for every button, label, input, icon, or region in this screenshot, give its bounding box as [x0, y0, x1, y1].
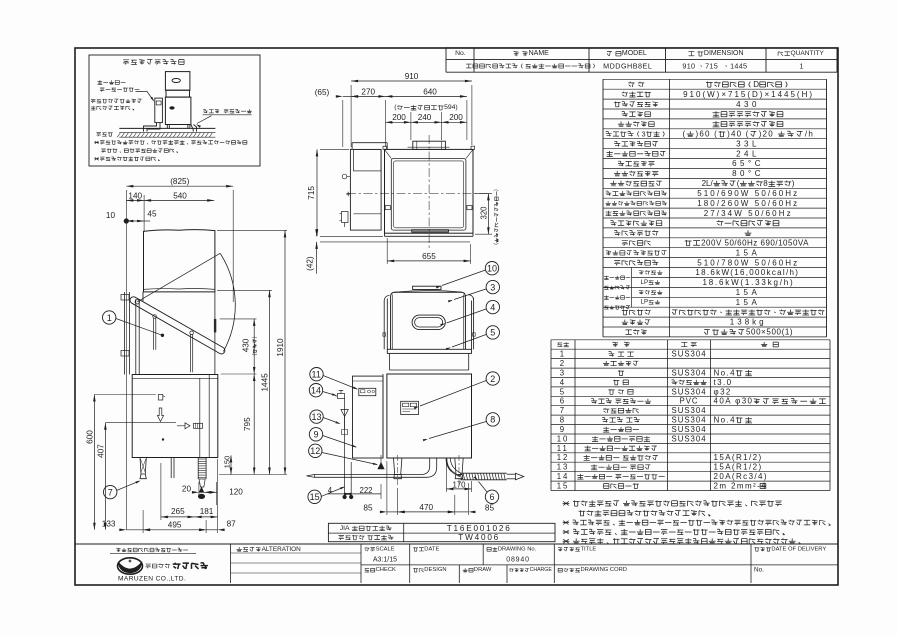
svg-text:CHARGE: CHARGE	[530, 567, 553, 573]
svg-text:20A(Rc3/4): 20A(Rc3/4)	[714, 472, 768, 481]
svg-text:18.6kW(1.33kg/h): 18.6kW(1.33kg/h)	[703, 278, 795, 287]
svg-text:430: 430	[242, 338, 251, 352]
top name/model table	[445, 48, 447, 72]
svg-text:138kg: 138kg	[730, 318, 767, 327]
svg-text:A3:1/15: A3:1/15	[373, 556, 397, 563]
sheet border frame	[75, 48, 838, 585]
svg-text:1445: 1445	[730, 62, 747, 71]
side view: front frame edge below door box	[214, 292, 216, 374]
svg-text:)60 (: )60 (	[696, 130, 718, 139]
side view: hinge column	[135, 299, 137, 375]
dimension (42)	[316, 232, 318, 237]
svg-text:(: (	[737, 179, 740, 188]
svg-text:45: 45	[147, 209, 157, 218]
svg-text:2L/: 2L/	[702, 179, 714, 188]
svg-text:500×500(1): 500×500(1)	[746, 328, 793, 337]
svg-text:15A(R1/2): 15A(R1/2)	[714, 463, 763, 472]
overflow pipe	[155, 98, 163, 123]
svg-text:): )	[494, 189, 500, 191]
svg-text:3: 3	[560, 369, 566, 378]
svg-text:MARUZEN CO.,LTD.: MARUZEN CO.,LTD.	[118, 576, 186, 583]
parts list table	[551, 339, 830, 341]
dimension 795	[253, 374, 255, 475]
svg-text:13: 13	[557, 463, 570, 472]
svg-text:(42): (42)	[305, 256, 314, 271]
svg-text:5: 5	[490, 328, 495, 338]
dimension 407	[105, 422, 176, 424]
svg-text:87: 87	[227, 520, 237, 529]
hose corrugation	[460, 473, 461, 480]
plan view: corner ears	[383, 146, 387, 149]
svg-text:NAME: NAME	[529, 50, 550, 57]
front view: booster pipes	[344, 398, 346, 497]
title block	[75, 543, 838, 545]
plan view: bottom bar	[412, 230, 449, 233]
front view: hood top cap	[413, 286, 441, 289]
drain ditch label	[96, 133, 101, 137]
svg-text:20: 20	[182, 484, 192, 493]
svg-text:24L: 24L	[736, 149, 760, 158]
svg-text:(65): (65)	[315, 88, 330, 97]
plan view: main body outline	[385, 149, 474, 233]
svg-text:15A: 15A	[736, 288, 761, 297]
svg-text:8: 8	[560, 416, 566, 425]
svg-text:JIA: JIA	[340, 525, 350, 532]
svg-text:No.4: No.4	[714, 416, 737, 425]
svg-text:200: 200	[449, 113, 463, 122]
svg-text:715: 715	[307, 186, 316, 200]
tank drain pipe	[191, 125, 197, 132]
front view: funnel symbol	[341, 410, 348, 417]
svg-text:(825): (825)	[170, 177, 189, 186]
floor with hatching	[119, 127, 215, 129]
svg-text:470: 470	[419, 503, 433, 512]
svg-text:10: 10	[106, 211, 116, 220]
svg-text:910(W)×715(D)×1445(H): 910(W)×715(D)×1445(H)	[683, 90, 814, 99]
svg-text:SUS304: SUS304	[672, 387, 707, 396]
svg-text:265: 265	[171, 507, 185, 516]
dimension 150	[230, 455, 232, 474]
svg-text:2: 2	[560, 359, 566, 368]
front view: dimension 85 470 85	[386, 461, 388, 515]
booster overflow label	[98, 80, 103, 84]
front view: gas cock symbol	[338, 394, 345, 399]
side view: hood mid lines	[142, 292, 144, 301]
dimension 910	[350, 85, 352, 147]
svg-text:10: 10	[557, 434, 570, 443]
mini dishwasher pictogram	[165, 72, 190, 91]
svg-text:15A: 15A	[736, 298, 761, 307]
plan view: centerlines	[428, 135, 430, 248]
svg-text:DRAWING No.: DRAWING No.	[498, 546, 537, 552]
svg-text:640: 640	[423, 87, 437, 96]
svg-text:DATE: DATE	[424, 546, 439, 552]
svg-text:430: 430	[736, 100, 760, 109]
side view: legs	[140, 458, 146, 479]
svg-text:85: 85	[485, 504, 495, 513]
svg-text:DESIGN: DESIGN	[424, 567, 446, 573]
svg-text:No.: No.	[455, 50, 466, 57]
front view: legs	[394, 458, 402, 475]
svg-text:LP: LP	[641, 299, 649, 306]
svg-text:1445: 1445	[260, 373, 269, 392]
svg-text:180/260W 50/60Hz: 180/260W 50/60Hz	[697, 199, 799, 208]
svg-text:): )	[252, 336, 258, 338]
front view: gas connection triangle	[378, 463, 384, 469]
dimension 600	[94, 394, 156, 396]
svg-text:)40 (: )40 (	[727, 130, 749, 139]
svg-text:540: 540	[173, 191, 187, 200]
svg-text:3: 3	[642, 130, 646, 139]
svg-text:170: 170	[453, 481, 467, 490]
svg-text:715: 715	[705, 62, 718, 71]
specification table	[603, 78, 827, 80]
svg-text:510/690W 50/60Hz: 510/690W 50/60Hz	[697, 189, 799, 198]
svg-text:910: 910	[405, 72, 419, 81]
svg-text:85: 85	[363, 504, 373, 513]
svg-text:120: 120	[229, 488, 243, 497]
pipe guidance label	[91, 99, 96, 103]
svg-text:6: 6	[490, 492, 495, 502]
svg-text:12: 12	[310, 446, 320, 456]
plan view: side tabs	[385, 206, 390, 210]
svg-text:08940: 08940	[506, 556, 529, 563]
side view: door swing fan	[137, 253, 220, 301]
svg-text:SUS304: SUS304	[672, 406, 707, 415]
svg-text:SUS304: SUS304	[672, 350, 707, 359]
front view: door bottom rail band	[387, 349, 471, 353]
svg-text:14: 14	[311, 386, 321, 396]
datum dot	[124, 218, 129, 223]
svg-text:No.4: No.4	[714, 369, 737, 378]
dimension 655	[386, 238, 388, 264]
dimension 430 door opening	[220, 318, 257, 320]
svg-text:600: 600	[86, 430, 95, 444]
svg-text:SUS304: SUS304	[672, 369, 707, 378]
svg-text:CHECK: CHECK	[376, 567, 396, 573]
svg-text:150: 150	[223, 456, 232, 469]
svg-text:8: 8	[490, 415, 495, 425]
svg-text:18.6kW(16,000kcal/h): 18.6kW(16,000kcal/h)	[695, 268, 799, 277]
svg-text:SUS304: SUS304	[672, 434, 707, 443]
dimension 20 / 120	[198, 482, 200, 496]
svg-text:(: (	[494, 243, 500, 245]
svg-text:(: (	[252, 354, 258, 356]
side view: drain hose column	[198, 458, 206, 460]
svg-text:D: D	[753, 80, 759, 89]
installation notes	[563, 501, 570, 505]
front view: control panel	[401, 401, 419, 414]
svg-text:795: 795	[243, 417, 252, 431]
svg-text:181: 181	[200, 507, 214, 516]
svg-text:7: 7	[108, 487, 113, 497]
svg-text:15: 15	[310, 492, 320, 502]
front view: corrugated drain hose	[446, 458, 460, 476]
front view: hood body	[391, 292, 466, 349]
dimension 265 / 181	[160, 463, 162, 520]
side view: drain point marker	[199, 487, 204, 492]
svg-text:510/780W 50/60Hz: 510/780W 50/60Hz	[697, 258, 799, 267]
callout 7	[104, 485, 117, 498]
dimension (65) 270 640	[342, 100, 344, 147]
svg-text:15A: 15A	[736, 248, 761, 257]
side view: hanging handle bars	[153, 315, 157, 319]
svg-text:8: 8	[763, 179, 768, 188]
dimension 140 / 540	[143, 195, 145, 231]
plan view: booster left fittings	[342, 174, 347, 179]
side view: detergent inlet symbol	[158, 395, 163, 401]
svg-text:910: 910	[682, 62, 695, 71]
svg-text:1: 1	[107, 313, 112, 323]
svg-text:2: 2	[490, 374, 495, 384]
front view: booster cabinet	[353, 376, 384, 458]
svg-text:594): 594)	[444, 104, 458, 111]
svg-text:QUANTITY: QUANTITY	[791, 50, 825, 57]
drain hose label	[203, 109, 208, 113]
maruzen company logo block	[116, 548, 120, 552]
svg-text:12: 12	[557, 453, 570, 462]
svg-text:1: 1	[800, 62, 804, 71]
svg-text:80°C: 80°C	[732, 169, 764, 178]
dimension 715	[320, 148, 349, 150]
front view: washer lower body	[387, 374, 472, 458]
svg-text:11: 11	[557, 444, 569, 453]
svg-text:4: 4	[560, 378, 566, 387]
svg-text:φ32: φ32	[714, 387, 732, 396]
svg-text:/h: /h	[805, 130, 814, 139]
svg-text:T16E001026: T16E001026	[447, 524, 512, 533]
dimension 200 240 200	[410, 112, 412, 140]
front view: door handle oval	[412, 315, 445, 330]
svg-text:LP: LP	[641, 279, 649, 286]
dimension 1445	[217, 289, 272, 291]
svg-text:200V 50/60Hz 690/1050VA: 200V 50/60Hz 690/1050VA	[701, 239, 809, 248]
svg-text:7: 7	[560, 406, 566, 415]
plan view: top vent	[413, 141, 446, 149]
svg-text:DRAWING CORD: DRAWING CORD	[581, 567, 627, 573]
svg-text:)20: )20	[759, 130, 774, 139]
svg-text:3: 3	[490, 282, 495, 292]
callouts 10 3 4 5 2 8 right side	[485, 262, 498, 275]
svg-text:1: 1	[560, 350, 566, 359]
svg-text:10: 10	[487, 264, 497, 274]
side view: hood upper box	[144, 230, 215, 292]
dimension 320 rack rail center	[475, 192, 492, 194]
svg-text:655: 655	[422, 252, 436, 261]
svg-text:15: 15	[557, 482, 570, 491]
drain work instruction box	[89, 55, 260, 166]
front view: hood skirt	[389, 353, 391, 370]
front view: guide rails	[383, 301, 385, 350]
svg-text:33L: 33L	[736, 139, 760, 148]
JIA certification number box	[328, 523, 555, 541]
plan view: booster section	[350, 149, 381, 230]
svg-text:): )	[792, 179, 795, 188]
svg-text:495: 495	[168, 521, 182, 530]
svg-text:4: 4	[490, 302, 495, 312]
callouts 11 14 13 9 12 15 left side	[310, 368, 323, 381]
svg-text:MODEL: MODEL	[622, 50, 647, 57]
svg-text:9: 9	[560, 425, 566, 434]
svg-text:240: 240	[418, 113, 432, 122]
svg-text:222: 222	[360, 486, 373, 495]
dimension 10 / 45	[126, 220, 144, 222]
svg-text:DIMENSION: DIMENSION	[704, 50, 744, 57]
svg-text:11: 11	[312, 370, 321, 380]
svg-text:SCALE: SCALE	[376, 546, 395, 552]
svg-text:133: 133	[102, 520, 116, 529]
svg-text:9: 9	[314, 430, 319, 440]
svg-text:14: 14	[557, 472, 570, 481]
svg-text:TW4006: TW4006	[458, 533, 500, 542]
side view: water inlet arrow symbol	[177, 423, 190, 429]
callout 1	[103, 311, 116, 324]
svg-text:SUS304: SUS304	[672, 416, 707, 425]
svg-text:6: 6	[560, 397, 566, 406]
svg-text:DATE OF DELIVERY: DATE OF DELIVERY	[771, 546, 826, 552]
svg-text:SUS304: SUS304	[672, 425, 707, 434]
front view: dimension 4 / 222	[343, 495, 347, 499]
svg-text:ALTERATION: ALTERATION	[262, 546, 302, 553]
front view: drain pipe elbow to left	[421, 458, 437, 477]
svg-text:(: (	[683, 130, 687, 139]
svg-text:270: 270	[361, 87, 375, 96]
plan view: tank opening inner frame	[391, 159, 466, 231]
svg-text:320: 320	[479, 206, 488, 220]
front view: leg center dimension 170	[445, 462, 447, 492]
svg-text:MDDGHB8EL: MDDGHB8EL	[603, 62, 652, 71]
front view: booster control panel	[359, 388, 376, 395]
dimension (825)	[125, 190, 127, 221]
svg-text:407: 407	[97, 444, 106, 458]
svg-text:TITLE: TITLE	[581, 546, 597, 552]
dimension 133 / 495 / 87	[142, 510, 144, 533]
svg-text:5: 5	[560, 387, 566, 396]
side view: lower body	[132, 375, 218, 458]
dimension 1910	[217, 229, 287, 231]
svg-text:200: 200	[392, 113, 406, 122]
side view: left guide rail	[124, 292, 126, 375]
svg-text:15A(R1/2): 15A(R1/2)	[714, 453, 763, 462]
svg-text:2m 2mm²-4: 2m 2mm²-4	[714, 482, 768, 491]
svg-text:40A φ30: 40A φ30	[714, 397, 754, 406]
svg-text:1910: 1910	[276, 338, 285, 357]
side view: open door panel (diagonal)	[130, 297, 225, 354]
svg-text:t3.0: t3.0	[714, 378, 733, 387]
svg-text:PVC: PVC	[680, 397, 699, 406]
svg-text:27/34W 50/60Hz: 27/34W 50/60Hz	[704, 209, 793, 218]
svg-text:65°C: 65°C	[732, 159, 764, 168]
svg-text:DRAW: DRAW	[474, 567, 492, 573]
svg-text:13: 13	[312, 412, 322, 422]
svg-text:140: 140	[128, 191, 142, 200]
svg-text:No.: No.	[754, 567, 764, 574]
drain notes	[94, 141, 99, 144]
